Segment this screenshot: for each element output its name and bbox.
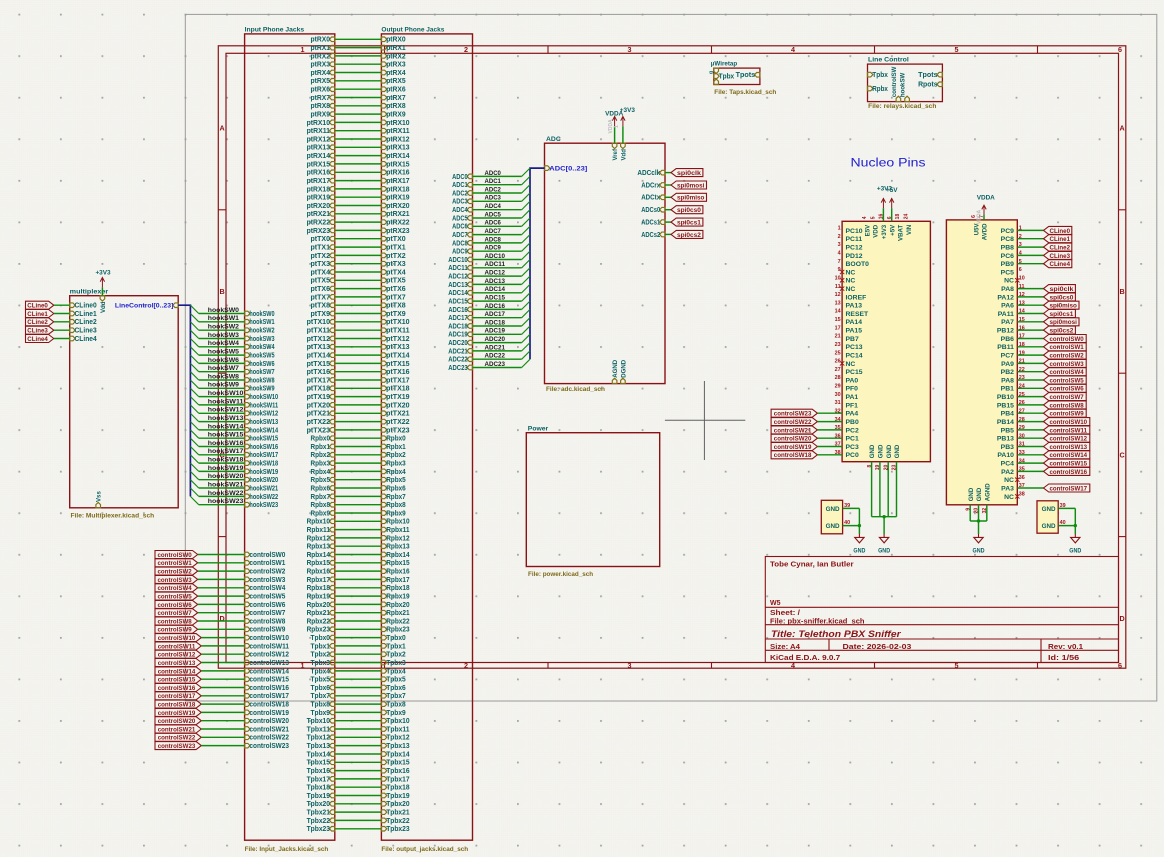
svg-text:controlSW8: controlSW8	[158, 618, 193, 625]
svg-text:Rpbx5: Rpbx5	[311, 477, 331, 484]
svg-text:AVDD: AVDD	[982, 223, 989, 240]
svg-text:PA8: PA8	[1001, 286, 1014, 293]
svg-text:Tpbx9: Tpbx9	[386, 710, 406, 717]
svg-text:controlSW3: controlSW3	[158, 577, 193, 584]
svg-text:2: 2	[464, 45, 468, 54]
svg-text:ptRX13: ptRX13	[307, 145, 330, 152]
svg-text:Tpbx2: Tpbx2	[311, 652, 331, 659]
svg-text:ptRX3: ptRX3	[386, 62, 406, 69]
svg-text:Rpbx19: Rpbx19	[307, 594, 330, 601]
svg-text:hookSW15: hookSW15	[249, 436, 278, 443]
svg-text:ADC9: ADC9	[452, 249, 468, 256]
svg-text:ptTX11: ptTX11	[386, 328, 410, 335]
svg-text:GND: GND	[878, 547, 890, 554]
svg-text:Rpbx9: Rpbx9	[311, 510, 331, 517]
svg-text:ADC11: ADC11	[485, 261, 506, 268]
svg-text:Rpbx12: Rpbx12	[307, 535, 330, 542]
svg-text:controlSW2: controlSW2	[249, 569, 285, 576]
svg-text:ADCrx: ADCrx	[641, 182, 660, 189]
svg-text:ptTX22: ptTX22	[386, 419, 410, 426]
svg-text:ADC11: ADC11	[448, 265, 468, 272]
svg-text:ptTX11: ptTX11	[307, 328, 331, 335]
svg-text:Tpots: Tpots	[736, 72, 756, 79]
svg-text:hookSW2: hookSW2	[208, 324, 239, 331]
svg-text:ptTX7: ptTX7	[311, 294, 331, 301]
svg-text:hookSW4: hookSW4	[208, 340, 239, 347]
svg-text:ADC8: ADC8	[485, 236, 502, 243]
svg-text:PA15: PA15	[846, 328, 863, 335]
svg-text:VIN: VIN	[906, 225, 913, 235]
svg-text:PC0: PC0	[846, 452, 859, 459]
svg-text:B: B	[219, 287, 224, 296]
svg-text:ptTX13: ptTX13	[307, 344, 331, 351]
svg-text:controlSW2: controlSW2	[1050, 353, 1085, 360]
svg-text:ptTX0: ptTX0	[386, 236, 406, 243]
svg-text:Rpbx: Rpbx	[872, 86, 888, 93]
svg-text:ptRX20: ptRX20	[307, 203, 330, 210]
svg-text:controlSW22: controlSW22	[158, 735, 196, 742]
svg-text:NC: NC	[1004, 278, 1014, 285]
svg-text:ptRX11: ptRX11	[307, 128, 331, 135]
svg-text:ptRX7: ptRX7	[311, 95, 331, 102]
svg-text:ptRX4: ptRX4	[386, 70, 406, 77]
svg-text:hookSW11: hookSW11	[249, 402, 278, 409]
svg-text:ADC7: ADC7	[485, 228, 502, 235]
svg-text:File: relays.kicad_sch: File: relays.kicad_sch	[868, 103, 936, 110]
svg-text:ptRX4: ptRX4	[311, 70, 331, 77]
svg-text:controlSW13: controlSW13	[158, 660, 196, 667]
svg-text:hookSW21: hookSW21	[249, 485, 278, 492]
svg-text:ADC22: ADC22	[485, 353, 506, 360]
svg-text:hookSW14: hookSW14	[208, 423, 244, 430]
svg-text:hookSW6: hookSW6	[249, 361, 274, 368]
svg-text:Tpbx3: Tpbx3	[311, 660, 331, 667]
svg-text:controlSW5: controlSW5	[1050, 377, 1085, 384]
svg-text:ADCtx: ADCtx	[641, 195, 660, 202]
svg-text:ptRX2: ptRX2	[386, 53, 406, 60]
svg-text:controlSW7: controlSW7	[249, 610, 285, 617]
svg-text:ptRX8: ptRX8	[311, 103, 331, 110]
svg-text:Rpots: Rpots	[918, 82, 938, 89]
svg-text:ADC15: ADC15	[485, 295, 506, 302]
svg-text:4: 4	[862, 216, 868, 219]
svg-text:ptRX23: ptRX23	[307, 228, 330, 235]
svg-text:hookSW0: hookSW0	[249, 311, 274, 318]
svg-text:Rpbx10: Rpbx10	[307, 519, 330, 526]
svg-text:Tpbx14: Tpbx14	[307, 751, 330, 758]
svg-text:PB7: PB7	[846, 336, 859, 343]
svg-text:Tpbx9: Tpbx9	[311, 710, 331, 717]
svg-text:ADC5: ADC5	[452, 215, 468, 222]
svg-text:PB1: PB1	[1001, 386, 1014, 393]
svg-text:PC7: PC7	[1001, 353, 1014, 360]
svg-text:PA12: PA12	[997, 294, 1014, 301]
svg-text:Rpbx17: Rpbx17	[307, 577, 330, 584]
svg-text:ADC17: ADC17	[448, 315, 468, 322]
svg-text:Tpbx4: Tpbx4	[386, 668, 406, 675]
svg-text:17: 17	[835, 325, 841, 331]
svg-text:Rpbx2: Rpbx2	[386, 452, 406, 459]
svg-text:27: 27	[835, 367, 841, 373]
svg-text:ptRX21: ptRX21	[386, 211, 409, 218]
svg-text:VBAT: VBAT	[898, 225, 905, 241]
svg-text:Tpbx18: Tpbx18	[307, 785, 330, 792]
svg-text:AGND: AGND	[984, 483, 991, 502]
svg-text:ADC20: ADC20	[485, 336, 506, 343]
svg-text:ptRX0: ptRX0	[386, 37, 406, 44]
svg-text:PC5: PC5	[1001, 269, 1014, 276]
svg-text:CLine1: CLine1	[1050, 236, 1071, 243]
svg-text:CLine2: CLine2	[75, 319, 97, 326]
svg-text:hookSW21: hookSW21	[208, 481, 244, 488]
svg-text:hookSW22: hookSW22	[249, 494, 278, 501]
svg-text:VDDA: VDDA	[976, 209, 982, 224]
svg-text:controlSW16: controlSW16	[249, 685, 289, 692]
svg-text:Rpbx17: Rpbx17	[386, 577, 409, 584]
svg-text:ADC13: ADC13	[448, 282, 468, 289]
svg-text:ptTX17: ptTX17	[307, 377, 331, 384]
svg-text:ADC9: ADC9	[485, 245, 502, 252]
svg-text:ptTX15: ptTX15	[386, 361, 410, 368]
svg-text:Tpbx16: Tpbx16	[307, 768, 330, 775]
svg-text:Tpbx18: Tpbx18	[386, 785, 409, 792]
svg-text:hookSW11: hookSW11	[208, 398, 244, 405]
svg-text:controlSW1: controlSW1	[1050, 344, 1085, 351]
svg-text:controlSW23: controlSW23	[774, 411, 812, 418]
svg-text:15: 15	[835, 317, 841, 323]
svg-text:ptRX14: ptRX14	[386, 153, 409, 160]
svg-text:controlSW15: controlSW15	[1050, 461, 1088, 468]
svg-text:controlSW0: controlSW0	[158, 552, 193, 559]
svg-text:PF0: PF0	[846, 386, 859, 393]
svg-text:1: 1	[838, 226, 841, 232]
svg-text:PC1: PC1	[846, 436, 859, 443]
svg-text:hookSW22: hookSW22	[208, 490, 244, 497]
svg-text:spi0cs1: spi0cs1	[1050, 311, 1074, 318]
svg-text:ADC12: ADC12	[485, 270, 506, 277]
svg-text:controlSW8: controlSW8	[249, 618, 285, 625]
svg-text:ptTX10: ptTX10	[307, 319, 331, 326]
svg-text:D: D	[1119, 614, 1124, 623]
svg-text:PB6: PB6	[1001, 336, 1014, 343]
svg-text:Rpbx22: Rpbx22	[386, 618, 409, 625]
svg-text:hookSW9: hookSW9	[249, 386, 274, 393]
svg-text:Output Phone Jacks: Output Phone Jacks	[381, 27, 444, 34]
svg-text:ptTX14: ptTX14	[386, 353, 410, 360]
svg-text:Rev: v0.1: Rev: v0.1	[1048, 644, 1083, 651]
svg-text:ptRX0: ptRX0	[311, 37, 331, 44]
svg-text:ptTX16: ptTX16	[307, 369, 331, 376]
svg-text:3: 3	[628, 661, 632, 670]
svg-text:PC11: PC11	[846, 236, 863, 243]
svg-text:controlSW11: controlSW11	[1050, 427, 1088, 434]
svg-text:ADC0: ADC0	[485, 170, 502, 177]
svg-text:hookSW16: hookSW16	[208, 440, 244, 447]
svg-text:PC2: PC2	[846, 427, 859, 434]
svg-text:File: power.kicad_sch: File: power.kicad_sch	[528, 571, 593, 578]
svg-text:NC: NC	[846, 361, 856, 368]
svg-text:ADCs1: ADCs1	[641, 220, 660, 227]
svg-text:24: 24	[904, 214, 910, 220]
svg-text:controlSW11: controlSW11	[249, 643, 289, 650]
svg-text:ADC8: ADC8	[452, 240, 468, 247]
svg-text:ADC: ADC	[546, 136, 561, 143]
svg-text:CLine3: CLine3	[27, 328, 48, 335]
svg-text:controlSW0: controlSW0	[249, 552, 285, 559]
svg-text:ptRX11: ptRX11	[386, 128, 410, 135]
svg-text:B: B	[1119, 287, 1124, 296]
svg-text:Tpbx2: Tpbx2	[386, 652, 406, 659]
svg-text:ptTX6: ptTX6	[386, 286, 406, 293]
svg-text:hookSW15: hookSW15	[208, 432, 244, 439]
svg-text:30: 30	[835, 392, 841, 398]
svg-text:Tpbx5: Tpbx5	[386, 677, 406, 684]
svg-text:VDDA: VDDA	[608, 119, 614, 134]
svg-text:ptRX21: ptRX21	[307, 211, 330, 218]
svg-text:hookSW9: hookSW9	[208, 382, 239, 389]
svg-text:controlSW17: controlSW17	[1050, 485, 1088, 492]
svg-text:ptTX1: ptTX1	[311, 245, 331, 252]
svg-text:Rpbx21: Rpbx21	[386, 610, 409, 617]
svg-text:Rpbx21: Rpbx21	[307, 610, 330, 617]
svg-text:Rpbx13: Rpbx13	[307, 544, 330, 551]
svg-text:ptTX2: ptTX2	[386, 253, 406, 260]
svg-text:Rpbx23: Rpbx23	[307, 627, 330, 634]
svg-text:ADC1: ADC1	[485, 178, 502, 185]
svg-text:Tpbx16: Tpbx16	[386, 768, 409, 775]
svg-text:File: pbx-sniffer.kicad_sch: File: pbx-sniffer.kicad_sch	[770, 619, 865, 626]
svg-text:controlSW11: controlSW11	[158, 643, 196, 650]
svg-text:Vdd: Vdd	[620, 149, 627, 161]
svg-text:PA9: PA9	[1001, 361, 1014, 368]
svg-text:controlSW5: controlSW5	[249, 594, 285, 601]
svg-text:NC: NC	[846, 269, 856, 276]
svg-text:Rpbx3: Rpbx3	[386, 461, 406, 468]
svg-text:Tpbx14: Tpbx14	[386, 751, 409, 758]
svg-text:ptTX21: ptTX21	[386, 411, 410, 418]
svg-text:CLine0: CLine0	[1050, 228, 1071, 235]
svg-text:VDD: VDD	[873, 224, 880, 237]
svg-text:IOREF: IOREF	[846, 294, 867, 301]
svg-text:PA14: PA14	[846, 319, 863, 326]
svg-text:Tpbx15: Tpbx15	[386, 760, 409, 767]
svg-text:Rpbx14: Rpbx14	[386, 552, 409, 559]
svg-text:ADC1: ADC1	[452, 182, 468, 189]
svg-text:PC9: PC9	[1001, 228, 1014, 235]
svg-text:ADC16: ADC16	[448, 307, 468, 314]
svg-text:NC: NC	[846, 286, 856, 293]
svg-text:Rpbx3: Rpbx3	[311, 461, 331, 468]
svg-text:GND: GND	[886, 444, 893, 458]
svg-text:GND: GND	[869, 444, 876, 458]
svg-text:+3V3: +3V3	[881, 224, 888, 239]
svg-text:Power: Power	[528, 426, 549, 433]
svg-text:Tpbx19: Tpbx19	[307, 793, 330, 800]
svg-text:hookSW8: hookSW8	[208, 373, 239, 380]
svg-text:ADC10: ADC10	[448, 257, 468, 264]
svg-text:Tpbx1: Tpbx1	[311, 643, 331, 650]
svg-text:ptTX16: ptTX16	[386, 369, 410, 376]
svg-text:controlSW20: controlSW20	[249, 718, 289, 725]
svg-text:controlSW9: controlSW9	[158, 627, 193, 634]
svg-text:A: A	[1119, 124, 1124, 133]
svg-text:ptRX6: ptRX6	[386, 87, 406, 94]
svg-text:KiCad E.D.A. 9.0.7: KiCad E.D.A. 9.0.7	[770, 655, 840, 662]
svg-text:controlSW3: controlSW3	[249, 577, 285, 584]
svg-text:PC8: PC8	[1001, 236, 1014, 243]
svg-text:ptTX17: ptTX17	[386, 377, 410, 384]
svg-text:Rpbx7: Rpbx7	[311, 494, 331, 501]
svg-text:1: 1	[614, 125, 620, 128]
svg-text:ptRX18: ptRX18	[386, 186, 409, 193]
svg-text:PB2: PB2	[1001, 369, 1014, 376]
svg-text:hookSW17: hookSW17	[249, 452, 278, 459]
svg-text:controlSW5: controlSW5	[158, 594, 193, 601]
svg-text:Rpbx0: Rpbx0	[386, 436, 406, 443]
svg-text:NC: NC	[1004, 494, 1014, 501]
svg-text:hookSW14: hookSW14	[249, 427, 278, 434]
svg-text:hookSW3: hookSW3	[208, 332, 239, 339]
svg-text:RESET: RESET	[846, 311, 870, 318]
svg-text:µWiretap: µWiretap	[711, 61, 737, 68]
svg-text:PB13: PB13	[997, 436, 1014, 443]
svg-text:Vss: Vss	[96, 491, 103, 502]
svg-text:Rpbx19: Rpbx19	[386, 594, 409, 601]
svg-text:Tpbx10: Tpbx10	[386, 718, 409, 725]
svg-text:Rpbx18: Rpbx18	[307, 585, 330, 592]
svg-text:hookSW8: hookSW8	[249, 377, 274, 384]
svg-text:spi0clk: spi0clk	[1050, 286, 1074, 293]
svg-text:Rpbx0: Rpbx0	[311, 436, 331, 443]
svg-text:29: 29	[835, 384, 841, 390]
svg-text:ptRX17: ptRX17	[307, 178, 330, 185]
svg-text:PB5: PB5	[1001, 427, 1014, 434]
svg-text:PB10: PB10	[997, 394, 1014, 401]
svg-text:controlSW4: controlSW4	[249, 585, 285, 592]
svg-text:CLine3: CLine3	[75, 328, 97, 335]
svg-text:Rpbx16: Rpbx16	[307, 569, 330, 576]
svg-text:hookSW10: hookSW10	[249, 394, 278, 401]
svg-text:LineControl[0..23]: LineControl[0..23]	[115, 303, 174, 310]
svg-text:controlSW14: controlSW14	[249, 668, 289, 675]
svg-text:ptTX12: ptTX12	[386, 336, 410, 343]
svg-text:Tpbx7: Tpbx7	[386, 693, 406, 700]
svg-text:spi0mosi: spi0mosi	[677, 182, 705, 189]
svg-text:Tpbx7: Tpbx7	[311, 693, 331, 700]
svg-text:Tpbx8: Tpbx8	[386, 702, 406, 709]
svg-text:controlSW10: controlSW10	[1050, 419, 1088, 426]
svg-text:PA0: PA0	[846, 377, 859, 384]
svg-text:Rpbx18: Rpbx18	[386, 585, 409, 592]
svg-text:ptRX9: ptRX9	[386, 112, 406, 119]
svg-text:PB8: PB8	[1001, 245, 1014, 252]
svg-text:spi0clk: spi0clk	[677, 170, 701, 177]
svg-text:GND: GND	[894, 444, 901, 458]
svg-text:PB3: PB3	[1001, 444, 1014, 451]
svg-text:ptRX16: ptRX16	[386, 170, 409, 177]
svg-text:Tpbx8: Tpbx8	[311, 702, 331, 709]
svg-text:hookSW7: hookSW7	[208, 365, 239, 372]
svg-text:hookSW5: hookSW5	[208, 349, 239, 356]
svg-text:ptTX7: ptTX7	[386, 294, 406, 301]
svg-text:Tpbx3: Tpbx3	[386, 660, 406, 667]
svg-text:Tpbx20: Tpbx20	[307, 801, 330, 808]
svg-text:controlSW19: controlSW19	[158, 710, 196, 717]
svg-text:ADC23: ADC23	[485, 361, 506, 368]
svg-text:5: 5	[955, 45, 959, 54]
svg-text:ptTX18: ptTX18	[386, 386, 410, 393]
svg-text:Rpbx14: Rpbx14	[307, 552, 330, 559]
svg-text:ADC10: ADC10	[485, 253, 506, 260]
svg-text:ptTX0: ptTX0	[311, 236, 331, 243]
svg-text:PA4: PA4	[846, 411, 859, 418]
svg-text:D: D	[219, 614, 224, 623]
svg-text:ptTX8: ptTX8	[311, 303, 331, 310]
svg-text:5: 5	[870, 216, 876, 219]
svg-text:ptTX3: ptTX3	[386, 261, 406, 268]
svg-text:hookSW4: hookSW4	[249, 344, 274, 351]
svg-text:ADCs2: ADCs2	[641, 232, 660, 239]
svg-text:PC14: PC14	[846, 353, 863, 360]
svg-text:Tpbx21: Tpbx21	[386, 810, 409, 817]
svg-text:controlSW1: controlSW1	[249, 560, 285, 567]
svg-text:ptRX18: ptRX18	[307, 186, 330, 193]
svg-text:PA7: PA7	[1001, 319, 1014, 326]
svg-text:Rpbx15: Rpbx15	[307, 560, 330, 567]
svg-text:+3V3: +3V3	[95, 270, 111, 277]
svg-text:ptRX7: ptRX7	[386, 95, 406, 102]
svg-text:PB12: PB12	[997, 328, 1014, 335]
svg-text:ptTX19: ptTX19	[307, 394, 331, 401]
svg-text:Tpbx23: Tpbx23	[307, 826, 330, 833]
svg-text:GND: GND	[826, 523, 840, 530]
svg-text:Tpbx17: Tpbx17	[307, 776, 330, 783]
svg-text:hookSW23: hookSW23	[208, 498, 244, 505]
svg-text:25: 25	[835, 350, 841, 356]
svg-text:spi0mosi: spi0mosi	[1050, 319, 1078, 326]
svg-text:controlSW6: controlSW6	[158, 602, 193, 609]
svg-text:W5: W5	[770, 600, 781, 607]
svg-text:CLine0: CLine0	[75, 303, 97, 310]
svg-text:Rpbx8: Rpbx8	[311, 502, 331, 509]
svg-text:GND: GND	[968, 487, 975, 501]
svg-text:ADC14: ADC14	[448, 290, 468, 297]
svg-text:PA8: PA8	[1001, 377, 1014, 384]
svg-text:Tpbx4: Tpbx4	[311, 668, 331, 675]
svg-text:controlSW23: controlSW23	[249, 743, 289, 750]
svg-text:PC4: PC4	[1001, 461, 1014, 468]
svg-text:Rpbx23: Rpbx23	[386, 627, 409, 634]
svg-text:ptRX3: ptRX3	[311, 62, 331, 69]
svg-text:GND: GND	[1042, 506, 1056, 513]
svg-text:ADC2: ADC2	[452, 190, 468, 197]
svg-text:ptTX5: ptTX5	[311, 278, 331, 285]
svg-text:hookSW0: hookSW0	[208, 307, 239, 314]
svg-text:hookSW6: hookSW6	[208, 357, 239, 364]
svg-text:Line Control: Line Control	[868, 56, 909, 63]
svg-text:ptTX13: ptTX13	[386, 344, 410, 351]
svg-text:GND: GND	[1069, 547, 1081, 554]
svg-text:hookSW3: hookSW3	[249, 336, 274, 343]
svg-text:ptRX14: ptRX14	[307, 153, 330, 160]
svg-text:Tpbx20: Tpbx20	[386, 801, 409, 808]
svg-text:CLine2: CLine2	[1050, 245, 1071, 252]
svg-text:controlSW12: controlSW12	[249, 652, 289, 659]
svg-text:Tpbx19: Tpbx19	[386, 793, 409, 800]
svg-text:ptTX23: ptTX23	[307, 427, 331, 434]
svg-text:ADCclk: ADCclk	[637, 170, 660, 177]
svg-text:Vdd: Vdd	[100, 301, 107, 313]
